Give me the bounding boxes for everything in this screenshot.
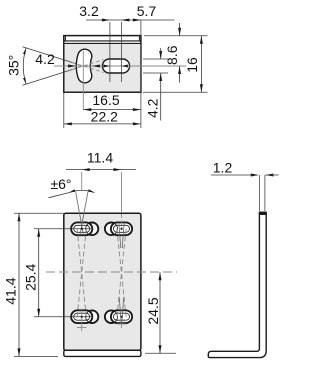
- dim 8.6 upper arrow: [178, 28, 181, 36]
- svg-text:5.7: 5.7: [137, 3, 157, 19]
- dim 3.2 outer arrow: [102, 19, 110, 22]
- dim 11.4 left arrow: [82, 168, 90, 171]
- centreline above top-right slot: [121, 172, 123, 213]
- extension line top edge right: [144, 35, 208, 37]
- dim 1.2 right arrow: [265, 174, 273, 177]
- extension line flange bottom right: [145, 352, 176, 354]
- swing V above top-left slot a: [76, 192, 84, 235]
- extension line bar right surface: [264, 175, 266, 211]
- svg-text:1.2: 1.2: [213, 159, 233, 175]
- extension overhang 11.4: [66, 169, 136, 171]
- centre dot top-right slot: [120, 228, 122, 230]
- slotted hole front view bottom-left: [86, 310, 99, 323]
- extension line hole feature right: [120, 22, 122, 82]
- svg-text:8.6: 8.6: [164, 45, 180, 65]
- swing V below top-right slot a: [119, 223, 121, 249]
- svg-text:11.4: 11.4: [87, 149, 113, 165]
- svg-text:4.2: 4.2: [145, 98, 161, 118]
- extension line body right edge down: [140, 92, 142, 128]
- 6 deg arc right arrow: [88, 189, 95, 192]
- mounting hole obround in top view: [102, 59, 129, 73]
- 6 deg arc leader under text: [49, 193, 69, 198]
- extension line body right edge up: [140, 20, 142, 36]
- svg-text:22.2: 22.2: [91, 109, 118, 125]
- centre dot top-left slot: [81, 228, 83, 230]
- top view flange body outline: [64, 36, 141, 93]
- dim 24.5 bottom arrow: [159, 345, 162, 353]
- svg-text:4.2: 4.2: [35, 51, 55, 67]
- svg-text:41.4: 41.4: [3, 277, 19, 304]
- slotted hole front view top-right: [105, 223, 118, 236]
- dim 25.4 top arrow: [37, 229, 40, 237]
- swing line X right column a: [117, 229, 126, 317]
- centreline above top-right slot dashed part: [121, 214, 123, 228]
- centreline cross bottom-right slot: [117, 323, 127, 325]
- swing V above bottom-right slot b: [122, 297, 124, 323]
- centreline below bottom-right slot: [121, 323, 123, 328]
- 35 deg ray upper: [23, 47, 84, 66]
- centre dot bottom-right slot: [120, 316, 122, 318]
- dim 4.2 hole height lower arrow: [159, 73, 162, 81]
- dim 16 bottom arrow: [200, 84, 203, 92]
- 35 deg arc arrow top: [23, 48, 26, 55]
- swing V above top-left slot b: [80, 192, 88, 235]
- bend relief tick right: [138, 36, 140, 41]
- dim line 24.5: [159, 272, 161, 353]
- plus-minus 6 deg arc: [69, 190, 95, 192]
- dim 11.4 right arrow: [114, 168, 122, 171]
- slotted hole front view top-left: [86, 223, 99, 236]
- dim 3.2 left arrow at hole: [103, 65, 110, 68]
- extension line front bottom left: [14, 355, 58, 357]
- swing line X left column a: [77, 229, 86, 317]
- extension line slot centre down: [82, 80, 84, 110]
- horizontal centreline through slot and hole: [54, 65, 186, 67]
- front view plate body: [64, 213, 141, 350]
- dim line 22.2: [64, 123, 141, 125]
- dim 1.2 left arrow: [251, 174, 259, 177]
- centre dot bottom-left slot: [81, 316, 83, 318]
- arc slot vertical centreline: [82, 51, 84, 80]
- arc slot swing centreline b (dashed): [72, 60, 104, 70]
- 35 deg ray lower: [23, 66, 84, 85]
- dim 16.5 left arrow: [83, 108, 91, 111]
- dim 16.5 right arrow: [133, 108, 141, 111]
- centreline cross bottom-left slot: [77, 327, 87, 329]
- dim 24.5 top arrow: [159, 272, 162, 280]
- dim 4.2 hole height upper tail: [160, 48, 162, 59]
- dim 3.2 right arrow at hole: [121, 65, 128, 68]
- dim 16 top arrow: [200, 36, 203, 44]
- dim 8.6 upper tail: [179, 23, 181, 36]
- swing line X right column b: [117, 229, 126, 317]
- dim 1.2 right tail: [265, 174, 278, 176]
- side view cut end cap: [259, 212, 267, 215]
- side view L profile: [208, 212, 266, 357]
- dim 22.2 left arrow: [64, 122, 72, 125]
- centreline top-left row: [34, 228, 93, 230]
- dim 4.2 slot width right arrow: [92, 65, 100, 68]
- svg-text:16.5: 16.5: [92, 92, 119, 108]
- extension line bottom edge right: [143, 91, 208, 93]
- svg-text:3.2: 3.2: [79, 3, 99, 19]
- centreline above top-left slot: [81, 172, 83, 191]
- extension line body left edge down: [63, 92, 65, 128]
- svg-text:16: 16: [184, 57, 200, 73]
- svg-text:±6°: ±6°: [50, 176, 71, 192]
- swing V below top-right slot b: [122, 223, 124, 249]
- dim 1.2 leader: [211, 174, 258, 176]
- svg-text:24.5: 24.5: [145, 297, 161, 324]
- svg-text:25.4: 25.4: [22, 263, 38, 290]
- dim 4.2 hole height upper arrow: [159, 51, 162, 59]
- dim line 3.2 and 5.7: [86, 19, 175, 21]
- dim 5.7 right arrow: [133, 19, 141, 22]
- 35 deg arc arrow bottom: [23, 78, 26, 85]
- centreline below bottom-left slot: [81, 310, 83, 331]
- top view bend line 1: [64, 40, 141, 42]
- extension line hole top right: [143, 58, 168, 60]
- centreline bottom-left row: [34, 316, 93, 318]
- dim 8.6 lower tail: [179, 66, 181, 83]
- dim line 41.4: [18, 213, 20, 356]
- arc slot (kidney) in top view: [76, 49, 92, 83]
- dim 4.2 hole height lower tail: [160, 73, 162, 121]
- dim line 16: [200, 36, 202, 92]
- dim 22.2 right arrow: [133, 122, 141, 125]
- dim 41.4 bottom arrow: [18, 348, 21, 356]
- extension line bar left surface: [258, 175, 260, 211]
- extension line hole feature left: [109, 22, 111, 82]
- 35 deg dimension arc: [23, 48, 26, 84]
- top view bend line 2: [64, 42, 141, 44]
- swing V above bottom-right slot a: [119, 297, 121, 323]
- slotted hole front view bottom-right: [105, 310, 118, 323]
- bend relief tick left: [64, 36, 66, 41]
- arc slot swing centreline a (dashed): [72, 62, 104, 72]
- dim 41.4 top arrow: [18, 213, 21, 221]
- dim line 25.4: [38, 229, 40, 317]
- dim 8.6 lower arrow: [178, 66, 181, 74]
- dim 3.2/5.7 shared arrow: [121, 19, 129, 22]
- 6 deg arc left arrow: [69, 189, 76, 192]
- front view horizontal mid centreline (dashed): [46, 271, 177, 273]
- top view flat plate grey face: [65, 44, 141, 92]
- front view bottom flange edge band: [64, 350, 141, 356]
- extension line front top left: [14, 212, 64, 214]
- extension line hole bottom right: [143, 72, 168, 74]
- dim 25.4 bottom arrow: [37, 309, 40, 317]
- swing line X left column b: [77, 229, 86, 317]
- svg-text:35°: 35°: [6, 55, 22, 76]
- dim 4.2 slot width left arrow: [68, 65, 76, 68]
- dim line 16.5: [83, 109, 141, 111]
